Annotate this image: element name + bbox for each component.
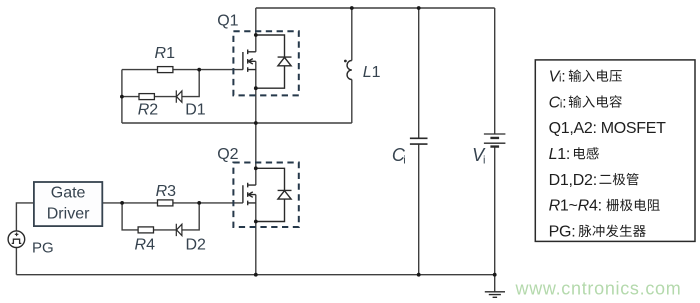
node: Q2 source rail junction bbox=[254, 273, 258, 277]
wire: bottom return rail bbox=[16, 274, 494, 276]
transistor Q1 MOSFET symbol bbox=[243, 50, 256, 72]
node: Q1 drain junction bbox=[254, 33, 258, 37]
wire: PG to bottom rail and to gate driver bbox=[16, 203, 34, 275]
battery source Vi bbox=[484, 134, 506, 143]
node: Q1 source junction bbox=[254, 86, 258, 90]
wire: L1 branch bbox=[351, 8, 353, 123]
inductor L1 polarity dot bbox=[344, 60, 347, 63]
svg-text:i: i bbox=[483, 155, 485, 167]
resistor R3 bbox=[158, 200, 173, 206]
node: L1 top rail junction bbox=[350, 6, 354, 10]
wire: top DC+ rail bbox=[256, 7, 495, 9]
ground bbox=[494, 275, 496, 292]
wire: R1/R2 left bar down to switch node bbox=[121, 70, 123, 123]
pulse generator PG symbol bbox=[8, 231, 25, 248]
svg-text:D1: D1 bbox=[185, 101, 206, 118]
legend box bbox=[535, 60, 695, 242]
wire: R4/D2 branch bbox=[122, 203, 199, 230]
svg-text:i: i bbox=[403, 155, 405, 167]
transistor Q2 dashed module box bbox=[233, 163, 298, 228]
gate driver block bbox=[34, 182, 102, 226]
transistor Q1 body diode bbox=[256, 35, 292, 88]
wire: Q1 drain to top rail bbox=[255, 8, 257, 52]
resistor R2 bbox=[139, 94, 154, 100]
svg-text:D2: D2 bbox=[186, 237, 207, 254]
node: Q2 drain junction bbox=[254, 166, 258, 170]
transistor Q1 dashed module box bbox=[233, 31, 298, 95]
node: switch node junction bbox=[254, 121, 258, 125]
wire: R2/D1 branch bbox=[122, 70, 199, 97]
wire: Ci branch bbox=[418, 8, 420, 275]
svg-text:R1: R1 bbox=[155, 45, 176, 62]
svg-text:Q2: Q2 bbox=[217, 146, 238, 163]
wire: Vi branch bbox=[494, 8, 496, 275]
svg-text:R3: R3 bbox=[156, 183, 177, 200]
svg-text:Driver: Driver bbox=[47, 206, 90, 223]
svg-text:www.cntronics.com: www.cntronics.com bbox=[515, 279, 682, 299]
inductor L1 coil bbox=[347, 61, 352, 80]
svg-text:R1~R4:: R1~R4: bbox=[549, 198, 602, 215]
wire: Q2 source to bottom rail bbox=[255, 195, 257, 275]
svg-text:Ci:: Ci: bbox=[549, 94, 567, 111]
wire: switch-node column Q1 source to Q2 drain bbox=[255, 61, 257, 185]
node: gate driver output junction bbox=[120, 201, 124, 205]
svg-text:PG:: PG: bbox=[549, 224, 576, 241]
node: Vi ground junction bbox=[493, 273, 497, 277]
svg-text:Q1: Q1 bbox=[217, 13, 238, 30]
resistor R4 bbox=[138, 227, 153, 233]
wire: gate driver output row to Q2 gate bbox=[102, 202, 243, 204]
wire: switch-node horizontal to L1 and R1/R2 return bbox=[122, 122, 352, 124]
wire: R1 row to Q1 gate bbox=[122, 69, 243, 71]
svg-text:PG: PG bbox=[32, 240, 54, 257]
svg-text:R2: R2 bbox=[138, 101, 159, 118]
svg-text:Gate: Gate bbox=[51, 185, 86, 202]
svg-text:D1,D2:: D1,D2: bbox=[549, 172, 597, 189]
node: Q2 source junction bbox=[254, 220, 258, 224]
svg-text:L1: L1 bbox=[363, 64, 381, 81]
diode D2 bbox=[176, 224, 182, 236]
svg-text:L1:: L1: bbox=[549, 146, 571, 163]
transistor Q2 MOSFET symbol bbox=[243, 183, 256, 205]
node: Q1 gate network junction bbox=[197, 68, 201, 72]
svg-text:Q1,A2: MOSFET: Q1,A2: MOSFET bbox=[549, 120, 667, 137]
node: R2 branch junction bbox=[120, 95, 124, 99]
node: Ci bottom rail junction bbox=[417, 273, 421, 277]
node: Ci top rail junction bbox=[417, 6, 421, 10]
transistor Q2 body diode bbox=[256, 168, 292, 221]
capacitor Ci plates bbox=[410, 138, 428, 144]
node: Q2 gate network junction bbox=[197, 201, 201, 205]
svg-text:Vi:: Vi: bbox=[549, 68, 566, 85]
svg-text:R4: R4 bbox=[135, 237, 156, 254]
resistor R1 bbox=[158, 67, 173, 73]
diode D1 bbox=[176, 90, 182, 102]
